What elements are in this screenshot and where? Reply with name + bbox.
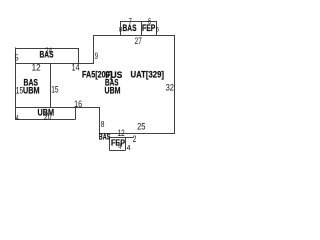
svg-text:14: 14 — [72, 63, 80, 74]
svg-text:15: 15 — [16, 85, 23, 96]
wire bottom edge of main outline — [100, 133, 176, 135]
wire right edge of main outline — [174, 35, 176, 134]
svg-text:24: 24 — [45, 46, 52, 56]
svg-text:2: 2 — [133, 134, 137, 145]
svg-text:25: 25 — [137, 122, 145, 133]
svg-text:BAS: BAS — [99, 133, 111, 142]
svg-text:32: 32 — [166, 83, 174, 94]
wire top of BAS box top-left — [16, 48, 79, 50]
svg-text:UBM: UBM — [105, 86, 121, 97]
wire top of upper BAS-FEP box — [121, 21, 157, 23]
wire horizontal at y107 — [16, 107, 101, 109]
wire top line of bottom FEP attachment — [109, 137, 134, 139]
wire lower-left vertical of main outline — [99, 108, 101, 135]
wire left edge of upper BAS-FEP box — [120, 21, 122, 36]
svg-text:UAT[329]: UAT[329] — [131, 70, 165, 81]
svg-text:12: 12 — [32, 63, 41, 74]
wire right edge of UBM box — [75, 108, 77, 120]
svg-text:9: 9 — [95, 51, 98, 62]
wire interior divider x50 — [50, 63, 52, 108]
wire bottom edge of bottom FEP box — [110, 150, 126, 152]
svg-text:12: 12 — [118, 128, 125, 139]
svg-text:27: 27 — [135, 36, 142, 47]
svg-text:15: 15 — [51, 85, 58, 96]
svg-text:4: 4 — [16, 115, 19, 122]
wire divider of upper BAS-FEP box — [141, 21, 143, 36]
wire horizontal at y62 — [16, 63, 95, 65]
wire top edge of main outline — [94, 35, 175, 37]
svg-text:16: 16 — [74, 99, 82, 110]
svg-text:8: 8 — [101, 119, 105, 129]
wire right edge of upper BAS-FEP box — [156, 21, 158, 36]
svg-text:5: 5 — [15, 54, 19, 63]
svg-text:UBM: UBM — [23, 86, 40, 97]
wire right edge of bottom FEP box — [125, 138, 127, 151]
svg-text:7: 7 — [129, 17, 132, 26]
svg-text:8: 8 — [119, 27, 123, 34]
svg-text:20: 20 — [44, 112, 52, 123]
svg-text:6: 6 — [148, 17, 151, 26]
wire bottom of UBM box — [15, 119, 76, 121]
wire upper-left vertical of main outline — [93, 35, 95, 64]
wire far-left vertical edge — [15, 48, 17, 120]
wire right edge of BAS box top-left — [78, 48, 80, 64]
wire left edge of bottom FEP box — [109, 138, 111, 151]
svg-text:4: 4 — [127, 145, 131, 152]
